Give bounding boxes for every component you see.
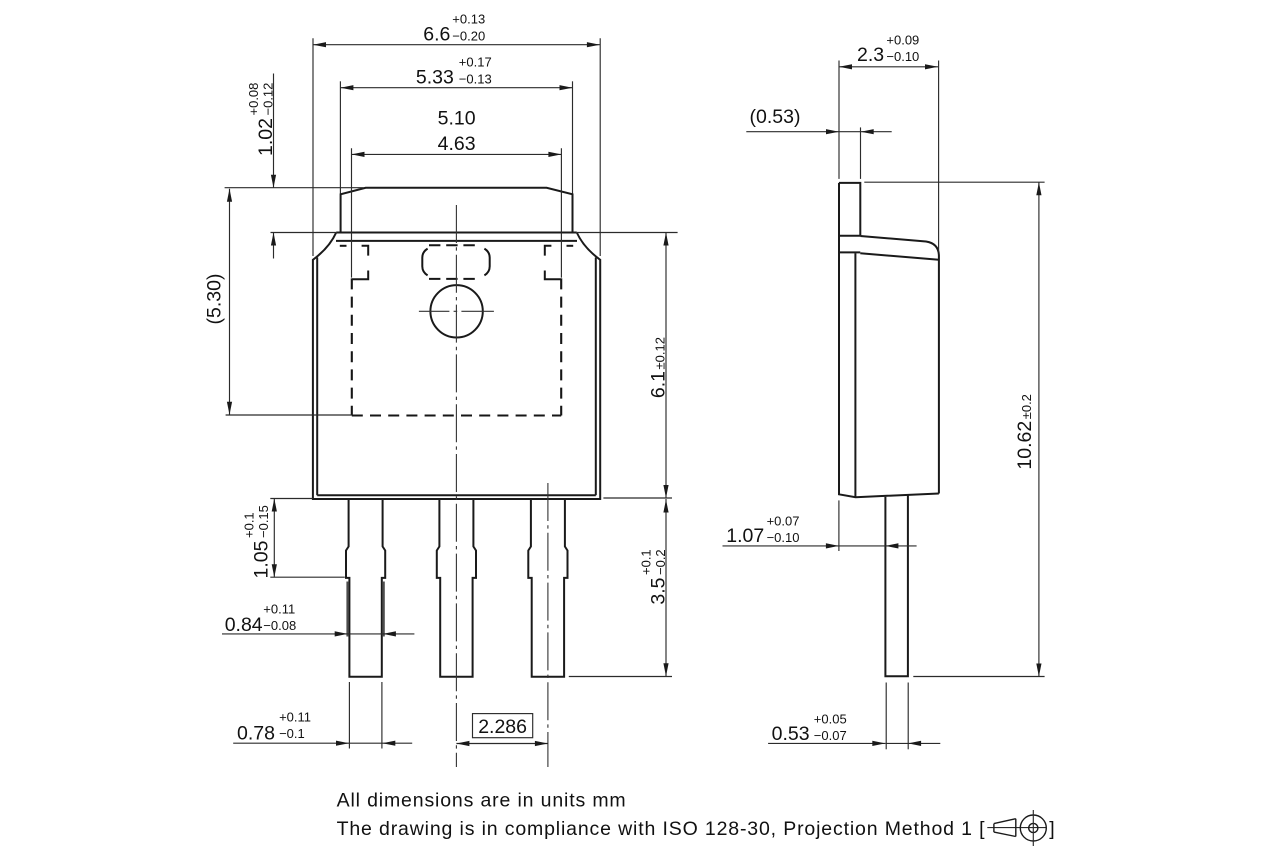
svg-text:−0.08: −0.08 [263, 618, 296, 633]
svg-text:0.84: 0.84 [225, 614, 263, 636]
svg-text:2.3: 2.3 [857, 44, 884, 66]
svg-text:+0.1: +0.1 [638, 549, 653, 575]
svg-text:0.53: 0.53 [772, 723, 810, 745]
svg-text:−0.15: −0.15 [256, 505, 271, 538]
svg-text:(0.53): (0.53) [750, 106, 801, 128]
svg-text:−0.07: −0.07 [814, 728, 847, 743]
svg-text:The drawing is in compliance w: The drawing is in compliance with ISO 12… [337, 818, 986, 840]
svg-text:5.33: 5.33 [416, 66, 454, 88]
svg-text:+0.1: +0.1 [241, 512, 256, 538]
svg-text:(5.30): (5.30) [204, 274, 226, 325]
svg-text:6.6: 6.6 [423, 23, 450, 45]
svg-text:5.10: 5.10 [438, 108, 476, 130]
svg-text:4.63: 4.63 [438, 133, 476, 155]
svg-text:−0.12: −0.12 [261, 83, 276, 116]
svg-text:−0.1: −0.1 [279, 726, 305, 741]
svg-text:+0.09: +0.09 [886, 32, 919, 47]
svg-text:1.05: 1.05 [251, 540, 273, 578]
svg-text:−0.20: −0.20 [452, 28, 485, 43]
svg-text:+0.11: +0.11 [263, 601, 295, 616]
svg-text:+0.13: +0.13 [452, 12, 485, 27]
svg-text:+0.17: +0.17 [459, 55, 492, 70]
svg-text:1.02: 1.02 [255, 118, 277, 156]
svg-text:10.62: 10.62 [1014, 421, 1036, 470]
svg-text:1.07: 1.07 [726, 525, 764, 547]
svg-text:+0.08: +0.08 [246, 83, 261, 116]
svg-text:]: ] [1049, 818, 1054, 840]
svg-text:±0.2: ±0.2 [1019, 394, 1034, 419]
svg-text:+0.05: +0.05 [814, 711, 847, 726]
svg-text:All dimensions are in units mm: All dimensions are in units mm [337, 790, 627, 812]
svg-text:0.78: 0.78 [237, 722, 275, 744]
svg-text:3.5: 3.5 [648, 577, 670, 604]
svg-text:−0.10: −0.10 [886, 49, 919, 64]
svg-text:−0.10: −0.10 [767, 530, 800, 545]
svg-text:±0.12: ±0.12 [653, 337, 668, 369]
svg-text:+0.11: +0.11 [279, 709, 311, 724]
svg-text:−0.13: −0.13 [459, 71, 492, 86]
svg-text:+0.07: +0.07 [767, 513, 800, 528]
svg-text:−0.2: −0.2 [653, 549, 668, 575]
svg-text:2.286: 2.286 [478, 716, 527, 738]
svg-text:6.1: 6.1 [648, 371, 670, 398]
